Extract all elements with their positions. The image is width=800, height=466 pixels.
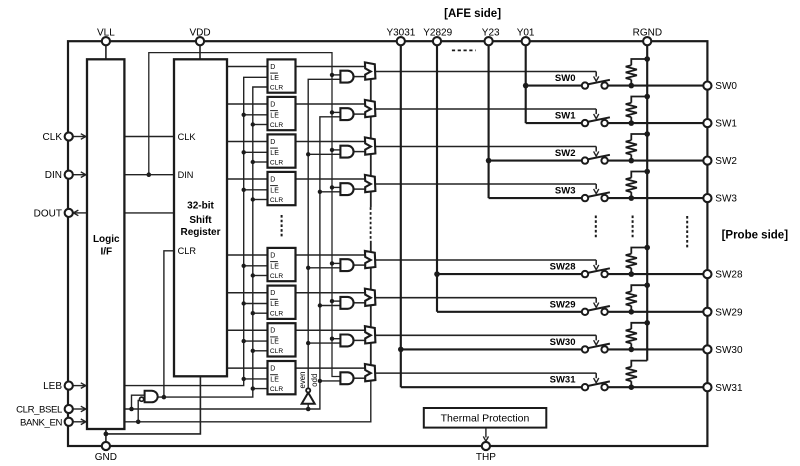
ellipsis latch column (281, 215, 283, 239)
wire signal SW30 left segment (401, 348, 582, 350)
wire buffer chain buffer8 down (370, 380, 372, 382)
wire buffer5 control line (375, 259, 596, 261)
svg-text:CLR: CLR (270, 348, 283, 355)
32-bit shift register block U2 (174, 59, 227, 376)
pin SW28 (703, 270, 711, 278)
latch L7 (268, 323, 296, 356)
wire shiftreg D out row1 (227, 66, 268, 68)
svg-text:BANK_EN: BANK_EN (20, 417, 62, 428)
svg-text:RGND: RGND (633, 27, 662, 38)
wire control drop SW3 (595, 184, 597, 189)
wire AND enable stub row3 (332, 149, 340, 151)
wire BANK_EN net (124, 381, 370, 422)
wire shiftreg D out row3 (227, 141, 268, 143)
wire DOUT shift register to logic (124, 212, 174, 214)
wire AND2 output (354, 113, 365, 115)
junction dot inverter input (306, 407, 311, 412)
switch driver buffer B3 (365, 137, 376, 154)
wire AND4 output (354, 188, 365, 190)
junction dot R2 on RGND rail (644, 131, 650, 137)
ellipsis buffer chain (370, 207, 372, 239)
wire Y23 column (488, 45, 490, 198)
svg-text:D: D (270, 328, 275, 335)
pin Y23 (485, 37, 493, 45)
pin SW0 (703, 82, 711, 90)
wire AND6 output (354, 302, 365, 304)
switch SW30 (582, 346, 588, 352)
wire THP arrow (485, 428, 487, 438)
wire buffer7 control line (375, 334, 596, 336)
wire RGND rail (646, 45, 648, 360)
svg-text:32-bit: 32-bit (187, 201, 214, 212)
svg-text:D: D (270, 290, 275, 297)
wire control drop SW31 (595, 373, 597, 378)
switch driver buffer B6 (365, 289, 376, 306)
wire signal SW29 right segment (608, 311, 708, 313)
junction dot R1 on RGND rail (644, 94, 650, 100)
wire buffer6 control line (375, 297, 596, 299)
pin SW1 (703, 119, 711, 127)
wire even stub row5 (308, 267, 340, 269)
wire AND enable stub row2 (332, 111, 340, 113)
ellipsis probe side x595 (595, 216, 597, 240)
svg-text:SW30: SW30 (550, 337, 576, 348)
svg-text:SW1: SW1 (715, 119, 737, 130)
svg-text:odd: odd (310, 374, 319, 387)
svg-text:SW28: SW28 (715, 270, 743, 281)
wire buffer2 control line (375, 108, 596, 110)
svg-text:SW30: SW30 (715, 345, 743, 356)
wire control drop SW1 (595, 109, 597, 114)
junction dot SW2 on Y column (486, 158, 492, 164)
wire AND enable stub row4 (332, 186, 340, 188)
svg-text:CLR: CLR (270, 122, 283, 129)
svg-text:SW0: SW0 (555, 73, 576, 84)
wire shiftreg D out row7 (227, 329, 268, 331)
svg-text:[Probe side]: [Probe side] (722, 230, 789, 242)
svg-text:I/F: I/F (100, 247, 112, 258)
svg-text:GND: GND (95, 452, 117, 463)
switch driver buffer B7 (365, 326, 376, 343)
wire buffer chain 5 stub (370, 241, 372, 252)
svg-text:CLR: CLR (270, 159, 283, 166)
svg-text:SW29: SW29 (715, 307, 743, 318)
pin SW30 (703, 345, 711, 353)
wire signal SW30 right segment (608, 348, 708, 350)
wire CLR stub latch4 (253, 199, 268, 201)
latch L8 (268, 361, 296, 394)
pin BANK_EN (65, 418, 73, 426)
wire shiftreg D out row4 (227, 178, 268, 180)
switch SW28 (582, 271, 588, 277)
resistor R2 (631, 134, 647, 140)
wire buffer chain 6-7 (370, 306, 372, 327)
wire even stub row7 (308, 342, 340, 344)
wire buffer3 control line (375, 146, 596, 148)
svg-text:D: D (270, 139, 275, 146)
wire latch5 out to buffer (296, 254, 366, 256)
latch L3 (268, 134, 296, 167)
ellipsis between Y2829 and Y23 (452, 49, 476, 51)
wire CLR stub latch2 (253, 124, 268, 126)
pin CLR_BSEL (65, 405, 73, 413)
svg-text:Logic: Logic (93, 234, 120, 245)
svg-text:SW31: SW31 (715, 383, 743, 394)
pin GND (102, 442, 110, 450)
svg-text:Shift: Shift (189, 215, 212, 226)
wire DIN-to-AND-enable rail (149, 53, 341, 377)
svg-text:Y2829: Y2829 (423, 27, 452, 38)
wire shiftreg D out row6 (227, 292, 268, 294)
wire signal SW28 right segment (608, 273, 708, 275)
wire AND enable stub row7 (332, 338, 340, 340)
wire signal SW1 right segment (608, 122, 708, 124)
logic I/F block U1 (87, 59, 124, 429)
switch SW31 (582, 384, 588, 390)
wire even rail (308, 79, 340, 388)
AND gate U3 with inverted input (145, 391, 158, 403)
svg-text:LE: LE (270, 339, 279, 346)
wire buffer chain 7-8 (370, 343, 372, 364)
wire VLL stub (105, 45, 107, 59)
AND gate G5 (340, 259, 353, 271)
svg-text:CLR: CLR (270, 311, 283, 318)
switch driver buffer B4 (365, 175, 376, 192)
svg-text:Y23: Y23 (482, 27, 500, 38)
pin SW31 (703, 383, 711, 391)
wire LEB pin to logic (73, 385, 87, 387)
junction dot R30 on RGND rail (644, 320, 650, 326)
wire signal SW29 left segment (437, 311, 582, 313)
wire signal SW28 left segment (437, 273, 582, 275)
wire AND enable stub row6 (332, 300, 340, 302)
wire LE stub latch2 (244, 114, 268, 116)
AND gate G3 (340, 146, 353, 158)
resistor R29 (631, 285, 647, 291)
wire CLK logic to shift register (124, 136, 174, 138)
junction dot R28 on RGND rail (644, 245, 650, 251)
wire latch8 out to buffer (296, 367, 366, 369)
wire even stub row3 (308, 153, 340, 155)
wire NAND input A from CLR_BSEL (132, 395, 145, 409)
svg-text:Register: Register (180, 227, 220, 238)
wire DIN pin to logic (73, 174, 87, 176)
wire NAND input B from BANK_EN (138, 401, 139, 422)
wire buffer4 control line (375, 183, 596, 185)
wire buffer chain 5-6 (370, 268, 372, 289)
wire signal SW2 right segment (608, 160, 708, 162)
junction dot R0 on RGND rail (644, 56, 650, 62)
wire buffer chain 1-2 (370, 80, 372, 101)
resistor R28 (631, 248, 647, 254)
chip outline border (68, 41, 707, 446)
switch SW0 (582, 82, 588, 88)
pin Y2829 (433, 37, 441, 45)
wire BANK_EN pin to logic (73, 421, 87, 423)
svg-text:D: D (270, 176, 275, 183)
wire Y2829 column (436, 45, 438, 312)
svg-text:VDD: VDD (189, 27, 210, 38)
svg-text:DOUT: DOUT (34, 208, 62, 219)
wire DOUT logic to pin (73, 212, 87, 214)
pin Y01 (522, 37, 530, 45)
junction dot R29 on RGND rail (644, 282, 650, 288)
latch L4 (268, 172, 296, 205)
svg-text:D: D (270, 366, 275, 373)
wire GND stub and branch to shift register (105, 429, 107, 442)
ellipsis probe side x632 (632, 216, 634, 240)
AND gate G8 (340, 372, 353, 384)
wire LE stub latch6 (244, 303, 268, 305)
wire AND1 output (354, 76, 365, 78)
AND gate G2 (340, 108, 353, 120)
wire control drop SW2 (595, 147, 597, 152)
wire LE stub latch7 (244, 340, 268, 342)
switch SW1 (582, 120, 588, 126)
resistor R1 (631, 97, 647, 103)
switch driver buffer B2 (365, 100, 376, 117)
svg-text:CLK: CLK (178, 132, 197, 142)
wire LE stub latch8 (244, 378, 268, 380)
wire CLR_BSEL net (124, 117, 340, 409)
wire Y01 column (525, 45, 527, 123)
switch driver buffer B1 (365, 62, 376, 79)
wire LE stub latch4 (244, 189, 268, 191)
wire latch1 out to buffer (296, 66, 366, 68)
wire signal SW31 right segment (608, 386, 708, 388)
svg-text:CLK: CLK (43, 132, 63, 143)
wire buffer chain 4 stub (370, 192, 372, 207)
wire Y3031 column (400, 45, 402, 387)
switch SW2 (582, 157, 588, 163)
wire odd stub row6 (320, 305, 341, 307)
wire control drop SW28 (595, 260, 597, 265)
pin CLK (65, 132, 73, 140)
svg-text:DIN: DIN (178, 170, 194, 180)
junction dot DIN rail (147, 172, 152, 177)
svg-text:CLR: CLR (270, 386, 283, 393)
svg-text:LE: LE (270, 187, 279, 194)
wire buffer8 control line (375, 372, 596, 374)
inverter U4 even/odd (302, 393, 315, 404)
wire signal SW3 right segment (608, 197, 708, 199)
svg-text:D: D (270, 101, 275, 108)
pin VDD (196, 37, 204, 45)
pin SW29 (703, 308, 711, 316)
AND gate G4 (340, 183, 353, 195)
svg-text:LEB: LEB (43, 381, 62, 392)
svg-text:CLR: CLR (270, 84, 283, 91)
svg-text:Y01: Y01 (517, 27, 535, 38)
ellipsis probe side x687 (686, 216, 688, 249)
svg-text:D: D (270, 252, 275, 259)
svg-text:LE: LE (270, 263, 279, 270)
wire AND enable stub row5 (332, 262, 340, 264)
wire CLR stub latch5 (253, 275, 268, 277)
wire CLR stub latch6 (253, 312, 268, 314)
switch driver buffer B8 (365, 364, 376, 381)
wire AND enable stub row1 (332, 74, 340, 76)
svg-text:SW2: SW2 (555, 148, 576, 159)
pin DIN (65, 171, 73, 179)
wire VDD stub (199, 45, 201, 59)
svg-text:LE: LE (270, 75, 279, 82)
svg-text:even: even (298, 372, 307, 389)
junction dot NAND input branch on BANK_EN (136, 420, 141, 425)
switch driver buffer B5 (365, 251, 376, 268)
svg-text:VLL: VLL (97, 27, 115, 38)
svg-text:LE: LE (270, 112, 279, 119)
pin Y3031 (397, 37, 405, 45)
thermal protection block U5 (424, 408, 547, 428)
wire CLR stub latch7 (253, 350, 268, 352)
wire AND5 output (354, 264, 365, 266)
svg-text:SW3: SW3 (715, 194, 737, 205)
wire signal SW31 left segment (401, 386, 582, 388)
svg-text:SW1: SW1 (555, 111, 576, 122)
wire LE stub latch3 (244, 151, 268, 153)
junction dot SW30 on Y column (398, 347, 404, 353)
wire signal SW2 left segment (489, 160, 582, 162)
wire signal SW0 left segment (526, 85, 582, 87)
svg-text:SW0: SW0 (715, 81, 737, 92)
resistor R30 (631, 323, 647, 329)
resistor R31 (631, 361, 647, 367)
AND gate G6 (340, 297, 353, 309)
wire shiftreg D out row5 (227, 254, 268, 256)
svg-text:DIN: DIN (45, 170, 62, 181)
svg-text:CLR: CLR (270, 197, 283, 204)
svg-text:CLR: CLR (270, 273, 283, 280)
svg-text:Thermal Protection: Thermal Protection (441, 413, 530, 425)
svg-text:CLR: CLR (178, 246, 197, 256)
svg-text:SW31: SW31 (550, 375, 577, 386)
resistor R3 (631, 172, 647, 178)
svg-text:SW29: SW29 (550, 299, 576, 310)
svg-text:LE: LE (270, 301, 279, 308)
svg-text:LE: LE (270, 150, 279, 157)
svg-text:Y3031: Y3031 (386, 27, 415, 38)
latch L5 (268, 248, 296, 281)
svg-text:SW28: SW28 (550, 262, 576, 273)
svg-text:THP: THP (476, 452, 496, 463)
wire signal SW1 left segment (526, 122, 582, 124)
junction dot R3 on RGND rail (644, 169, 650, 175)
wire latch3 out to buffer (296, 141, 366, 143)
svg-text:CLR_BSEL: CLR_BSEL (16, 405, 63, 416)
wire AND8 output (354, 377, 365, 379)
wire CLR branch to shift register (164, 251, 174, 397)
wire LE stub latch5 (244, 265, 268, 267)
wire control drop SW0 (595, 72, 597, 77)
AND gate G7 (340, 335, 353, 347)
wire buffer1 control line (375, 71, 596, 73)
wire NAND output / CLR net (158, 87, 268, 397)
pin THP (482, 442, 490, 450)
wire latch6 out to buffer (296, 292, 366, 294)
wire buffer chain 3-4 (370, 155, 372, 176)
wire DIN logic to shift register (124, 174, 174, 176)
wire CLK pin to logic (73, 136, 87, 138)
wire latch4 out to buffer (296, 178, 366, 180)
wire latch7 out to buffer (296, 329, 366, 331)
pin VLL (102, 37, 110, 45)
junction dot SW0 on Y column (523, 83, 529, 89)
wire shiftreg D out row2 (227, 103, 268, 105)
wire shiftreg D out row8 (227, 367, 268, 369)
junction dot SW28 on Y column (434, 271, 440, 277)
switch SW29 (582, 309, 588, 315)
pin DOUT (65, 209, 73, 217)
wire AND7 output (354, 339, 365, 341)
wire control drop SW30 (595, 335, 597, 340)
svg-text:[AFE side]: [AFE side] (444, 8, 501, 20)
pin SW3 (703, 194, 711, 202)
svg-text:SW3: SW3 (555, 186, 576, 197)
resistor R0 (631, 59, 647, 65)
wire signal SW3 left segment (489, 197, 582, 199)
AND gate G1 (340, 71, 353, 83)
latch L2 (268, 97, 296, 130)
wire control drop SW29 (595, 298, 597, 303)
latch L1 (268, 59, 296, 92)
wire latch2 out to buffer (296, 103, 366, 105)
wire LE net from logic (124, 77, 267, 385)
svg-text:D: D (270, 64, 275, 71)
wire CLR stub latch3 (253, 161, 268, 163)
wire AND3 output (354, 151, 365, 153)
pin LEB (65, 382, 73, 390)
wire CLR_BSEL pin to logic (73, 408, 87, 410)
pin RGND (643, 37, 651, 45)
wire CLR stub latch8 (253, 388, 268, 390)
wire odd stub row8 (320, 380, 341, 382)
switch SW3 (582, 195, 588, 201)
svg-text:SW2: SW2 (715, 156, 737, 167)
wire signal SW0 right segment (608, 85, 708, 87)
svg-text:LE: LE (270, 376, 279, 383)
latch L6 (268, 286, 296, 319)
wire odd stub row4 (320, 191, 341, 193)
pin SW2 (703, 157, 711, 165)
wire buffer chain 2-3 (370, 117, 372, 138)
